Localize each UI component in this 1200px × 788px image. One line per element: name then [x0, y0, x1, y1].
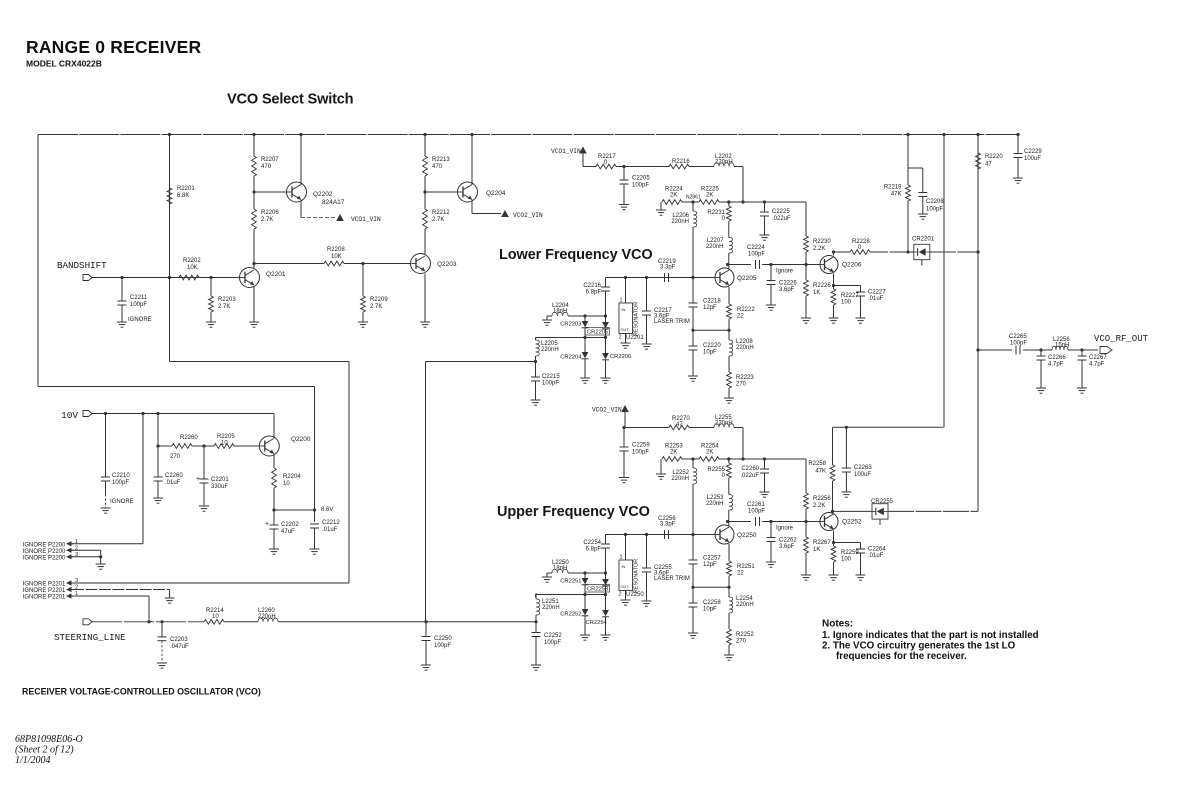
svg-text:6.8pF: 6.8pF	[586, 547, 602, 553]
svg-text:2: 2	[619, 592, 622, 598]
svg-text:2.7K: 2.7K	[432, 217, 444, 223]
svg-text:Q2203: Q2203	[437, 261, 457, 268]
svg-text:C2201: C2201	[211, 477, 229, 483]
svg-text:VCO Select Switch: VCO Select Switch	[227, 92, 354, 108]
svg-text:N2861: N2861	[686, 195, 701, 201]
svg-text:IGNORE: IGNORE	[23, 588, 47, 594]
svg-text:220nH: 220nH	[671, 476, 689, 482]
svg-text:C2215: C2215	[542, 374, 560, 380]
svg-text:100pF: 100pF	[632, 183, 649, 189]
svg-text:220nH: 220nH	[706, 501, 724, 507]
svg-text:CR2253: CR2253	[587, 587, 608, 593]
svg-text:220nH: 220nH	[671, 219, 689, 225]
svg-text:OUT: OUT	[621, 585, 630, 589]
svg-text:IGNORE: IGNORE	[23, 595, 47, 601]
svg-text:C2254: C2254	[583, 540, 601, 546]
svg-text:220nH: 220nH	[736, 602, 754, 608]
svg-text:R2220: R2220	[985, 154, 1003, 160]
svg-text:.01uF: .01uF	[868, 296, 884, 302]
svg-text:C2252: C2252	[544, 633, 562, 639]
svg-text:R2256: R2256	[813, 496, 831, 502]
svg-text:R2223: R2223	[736, 375, 754, 381]
svg-text:IGNORE: IGNORE	[128, 317, 152, 323]
svg-text:10: 10	[283, 481, 290, 487]
svg-text:CR2254: CR2254	[586, 620, 608, 626]
svg-text:C2226: C2226	[779, 281, 797, 287]
svg-text:.047uF: .047uF	[170, 644, 189, 650]
svg-text:100: 100	[841, 300, 852, 306]
svg-text:1K: 1K	[813, 547, 820, 553]
svg-text:Q2205: Q2205	[737, 275, 757, 282]
svg-text:1: 1	[620, 298, 623, 304]
svg-text:22: 22	[737, 571, 744, 577]
svg-text:Ignore: Ignore	[776, 269, 794, 275]
svg-text:VCO_RF_OUT: VCO_RF_OUT	[1094, 334, 1149, 344]
svg-text:R2222: R2222	[737, 307, 755, 313]
svg-text:330uF: 330uF	[211, 484, 228, 490]
svg-text:220nH: 220nH	[541, 347, 559, 353]
svg-text:2.7K: 2.7K	[261, 217, 273, 223]
svg-text:R2205: R2205	[217, 434, 235, 440]
svg-text:P2201: P2201	[48, 595, 66, 601]
svg-text:6.8pF: 6.8pF	[586, 290, 602, 296]
svg-text:3.3pF: 3.3pF	[660, 265, 676, 271]
svg-text:18nH: 18nH	[553, 566, 567, 572]
svg-text:CR2255: CR2255	[871, 499, 894, 505]
svg-text:C2266: C2266	[1048, 355, 1066, 361]
svg-text:STEERING_LINE: STEERING_LINE	[54, 632, 126, 643]
svg-text:47uF: 47uF	[281, 529, 295, 535]
svg-text:Upper Frequency VCO: Upper Frequency VCO	[497, 504, 650, 520]
svg-text:2.7K: 2.7K	[218, 304, 230, 310]
svg-text:P2200: P2200	[48, 549, 66, 555]
svg-text:12pF: 12pF	[703, 562, 717, 568]
svg-text:LASER TRIM: LASER TRIM	[654, 576, 690, 582]
svg-text:C2260: C2260	[165, 473, 183, 479]
svg-text:Q2200: Q2200	[291, 436, 311, 443]
svg-text:R2252: R2252	[736, 632, 754, 638]
svg-text:BANDSHIFT: BANDSHIFT	[57, 260, 107, 271]
svg-text:C2250: C2250	[434, 636, 452, 642]
svg-text:1K: 1K	[813, 290, 820, 296]
svg-text:1. Ignore indicates that the p: 1. Ignore indicates that the part is not…	[822, 630, 1039, 641]
svg-text:C2262: C2262	[779, 538, 797, 544]
svg-text:10pF: 10pF	[703, 350, 717, 356]
svg-text:R2260: R2260	[180, 435, 198, 441]
svg-text:VCO2_VIN: VCO2_VIN	[592, 407, 622, 414]
svg-text:R2267: R2267	[813, 540, 831, 546]
svg-text:.01uF: .01uF	[868, 553, 884, 559]
svg-text:18nH: 18nH	[553, 309, 567, 315]
svg-text:C2210: C2210	[112, 473, 130, 479]
svg-text:IGNORE: IGNORE	[23, 542, 47, 548]
svg-text:IN: IN	[622, 308, 626, 312]
svg-text:220nH: 220nH	[715, 160, 733, 166]
svg-text:R2226: R2226	[813, 283, 831, 289]
svg-text:R2206: R2206	[261, 210, 279, 216]
svg-text:220nH: 220nH	[715, 421, 733, 427]
svg-text:2.7K: 2.7K	[370, 304, 382, 310]
svg-text:8.6V: 8.6V	[321, 507, 333, 513]
svg-text:R2219: R2219	[884, 185, 902, 191]
svg-text:220nH: 220nH	[542, 605, 560, 611]
svg-text:RESONATOR: RESONATOR	[634, 559, 640, 593]
svg-text:Q2202: Q2202	[313, 191, 333, 198]
svg-text:C2258: C2258	[703, 600, 721, 606]
svg-text:100pF: 100pF	[632, 450, 649, 456]
svg-text:RANGE 0 RECEIVER: RANGE 0 RECEIVER	[26, 37, 201, 57]
svg-text:CR2205: CR2205	[587, 330, 608, 336]
svg-text:1: 1	[620, 555, 623, 561]
svg-text:CR2204: CR2204	[560, 355, 582, 361]
svg-text:LASER TRIM: LASER TRIM	[654, 319, 690, 325]
svg-text:2. The VCO circuitry generates: 2. The VCO circuitry generates the 1st L…	[822, 641, 1016, 652]
svg-text:IGNORE: IGNORE	[23, 555, 47, 561]
svg-text:C2261: C2261	[747, 502, 765, 508]
svg-text:100pF: 100pF	[544, 640, 561, 646]
svg-text:CR2251: CR2251	[560, 579, 581, 585]
svg-text:Notes:: Notes:	[822, 619, 853, 630]
svg-text:10: 10	[221, 441, 228, 447]
svg-text:R2209: R2209	[370, 297, 388, 303]
svg-text:47: 47	[676, 422, 683, 428]
svg-text:10: 10	[212, 614, 219, 620]
svg-text:CR2201: CR2201	[912, 237, 935, 243]
svg-text:C2227: C2227	[868, 290, 886, 296]
svg-text:100uF: 100uF	[1024, 156, 1041, 162]
svg-text:R2212: R2212	[432, 210, 450, 216]
svg-text:100: 100	[841, 557, 852, 563]
svg-text:100pF: 100pF	[130, 302, 147, 308]
svg-text:.022uF: .022uF	[772, 216, 791, 222]
svg-text:15nH: 15nH	[1055, 343, 1069, 349]
svg-text:Lower Frequency VCO: Lower Frequency VCO	[499, 247, 653, 263]
svg-text:470: 470	[432, 164, 443, 170]
svg-text:C2263: C2263	[854, 465, 872, 471]
svg-text:100pF: 100pF	[112, 480, 129, 486]
svg-text:3.3pF: 3.3pF	[660, 522, 676, 528]
svg-text:Q2250: Q2250	[737, 532, 757, 539]
svg-text:2K: 2K	[670, 193, 677, 199]
svg-text:6.8K: 6.8K	[177, 193, 189, 199]
svg-text:10pF: 10pF	[703, 607, 717, 613]
svg-text:R2230: R2230	[813, 239, 831, 245]
svg-text:RESONATOR: RESONATOR	[634, 302, 640, 336]
svg-text:100pF: 100pF	[542, 381, 559, 387]
svg-text:2: 2	[619, 335, 622, 341]
svg-text:CR2252: CR2252	[560, 612, 581, 618]
svg-text:C2267: C2267	[1089, 355, 1107, 361]
svg-text:C2202: C2202	[281, 522, 299, 528]
svg-text:VCO1_VIN: VCO1_VIN	[551, 148, 581, 155]
svg-text:100pF: 100pF	[434, 643, 451, 649]
svg-text:Q2204: Q2204	[486, 190, 506, 197]
svg-text:VCO2_VIN: VCO2_VIN	[513, 212, 543, 219]
svg-text:2K: 2K	[706, 193, 713, 199]
svg-text:C2211: C2211	[130, 295, 148, 301]
svg-text:P2201: P2201	[48, 582, 66, 588]
svg-text:100uF: 100uF	[854, 472, 871, 478]
svg-text:IGNORE: IGNORE	[110, 499, 134, 505]
svg-text:R2216: R2216	[672, 159, 690, 165]
svg-text:RECEIVER VOLTAGE-CONTROLLED OS: RECEIVER VOLTAGE-CONTROLLED OSCILLATOR (…	[22, 687, 261, 697]
svg-text:C2203: C2203	[170, 637, 188, 643]
svg-text:(Sheet 2 of 12): (Sheet 2 of 12)	[15, 745, 74, 756]
svg-text:C2224: C2224	[747, 245, 765, 251]
svg-text:R2202: R2202	[183, 258, 201, 264]
svg-text:3.6pF: 3.6pF	[779, 544, 795, 550]
svg-text:1/1/2004: 1/1/2004	[15, 755, 51, 766]
svg-text:IGNORE: IGNORE	[23, 582, 47, 588]
svg-text:100pF: 100pF	[1010, 341, 1027, 347]
svg-text:2.2K: 2.2K	[813, 503, 825, 509]
svg-text:47K: 47K	[891, 192, 902, 198]
svg-text:C2265: C2265	[1009, 334, 1027, 340]
svg-text:2K: 2K	[706, 450, 713, 456]
svg-text:270: 270	[736, 639, 747, 645]
svg-text:CR2203: CR2203	[560, 322, 581, 328]
svg-text:P2201: P2201	[48, 588, 66, 594]
svg-text:824A17: 824A17	[322, 199, 345, 206]
svg-text:220nH: 220nH	[258, 614, 276, 620]
svg-text:3.6pF: 3.6pF	[779, 287, 795, 293]
svg-text:C2225: C2225	[772, 209, 790, 215]
svg-text:Ignore: Ignore	[776, 526, 794, 532]
svg-text:47K: 47K	[815, 469, 826, 475]
svg-text:frequencies for the receiver.: frequencies for the receiver.	[836, 651, 967, 662]
svg-text:100pF: 100pF	[748, 252, 765, 258]
svg-text:R2207: R2207	[261, 157, 279, 163]
svg-text:Q2206: Q2206	[842, 262, 862, 269]
svg-text:+: +	[196, 476, 200, 483]
svg-text:100pF: 100pF	[926, 207, 943, 213]
svg-text:10V: 10V	[61, 410, 78, 421]
svg-text:P2200: P2200	[48, 542, 66, 548]
svg-text:.01uF: .01uF	[165, 480, 181, 486]
svg-text:10K: 10K	[331, 254, 342, 260]
svg-text:R2208: R2208	[327, 247, 345, 253]
svg-text:270: 270	[736, 382, 747, 388]
svg-text:OUT: OUT	[621, 328, 630, 332]
svg-text:470: 470	[261, 164, 272, 170]
svg-text:C2220: C2220	[703, 343, 721, 349]
svg-text:220nH: 220nH	[706, 244, 724, 250]
svg-text:C2218: C2218	[703, 299, 721, 305]
svg-text:+: +	[265, 521, 269, 528]
svg-text:Q2252: Q2252	[842, 519, 862, 526]
svg-text:IGNORE: IGNORE	[23, 549, 47, 555]
svg-text:R2251: R2251	[737, 564, 755, 570]
svg-text:220nH: 220nH	[736, 345, 754, 351]
svg-text:.022uF: .022uF	[740, 473, 759, 479]
svg-text:C2260: C2260	[741, 466, 759, 472]
svg-text:R2201: R2201	[177, 186, 195, 192]
svg-text:100pF: 100pF	[748, 509, 765, 515]
svg-text:.01uF: .01uF	[322, 527, 338, 533]
svg-text:47: 47	[985, 162, 992, 168]
svg-text:R2204: R2204	[283, 474, 301, 480]
svg-text:22: 22	[737, 314, 744, 320]
svg-text:2K: 2K	[670, 450, 677, 456]
svg-text:R2258: R2258	[808, 461, 826, 467]
svg-text:4.7pF: 4.7pF	[1089, 362, 1105, 368]
svg-text:270: 270	[170, 454, 181, 460]
svg-text:R2203: R2203	[218, 297, 236, 303]
svg-text:C2216: C2216	[583, 283, 601, 289]
svg-text:C2208: C2208	[926, 199, 944, 205]
svg-text:C2229: C2229	[1024, 149, 1042, 155]
svg-text:C2257: C2257	[703, 556, 721, 562]
svg-text:C2205: C2205	[632, 176, 650, 182]
svg-text:10K: 10K	[187, 265, 198, 271]
svg-text:P2200: P2200	[48, 555, 66, 561]
svg-text:R2213: R2213	[432, 157, 450, 163]
svg-text:MODEL CRX4022B: MODEL CRX4022B	[26, 59, 102, 69]
svg-text:CR2206: CR2206	[610, 354, 631, 360]
svg-text:VCO1_VIN: VCO1_VIN	[351, 216, 381, 223]
svg-text:68P81098E06-O: 68P81098E06-O	[15, 734, 83, 745]
svg-text:4.7pF: 4.7pF	[1048, 362, 1064, 368]
svg-text:2.2K: 2.2K	[813, 246, 825, 252]
svg-text:C2212: C2212	[322, 520, 340, 526]
svg-text:12pF: 12pF	[703, 305, 717, 311]
svg-text:C2259: C2259	[632, 443, 650, 449]
svg-text:Q2201: Q2201	[266, 271, 286, 278]
svg-text:C2264: C2264	[868, 547, 886, 553]
svg-text:IN: IN	[622, 565, 626, 569]
